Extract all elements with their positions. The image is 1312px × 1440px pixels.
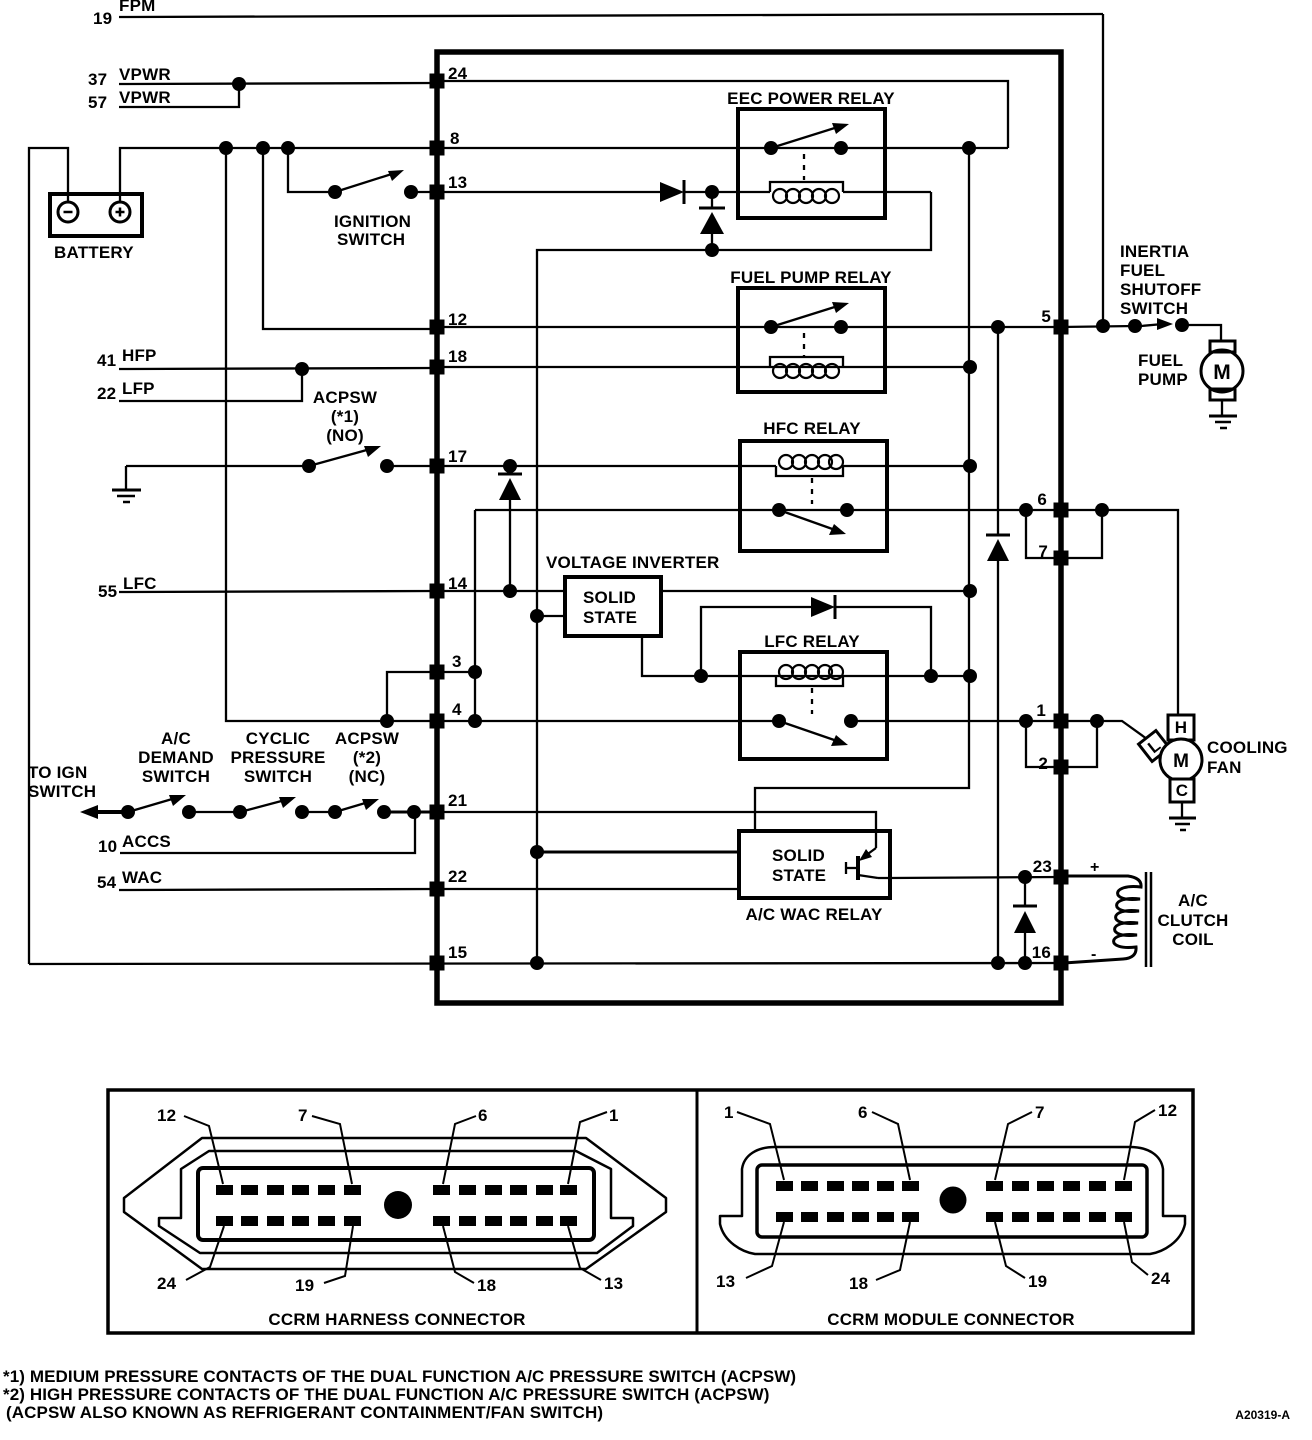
junction x998 pin 5 bbox=[991, 320, 1005, 334]
svg-text:1: 1 bbox=[724, 1103, 734, 1122]
CCRM harness connector pin frame bbox=[198, 1168, 594, 1240]
label LFC relay bbox=[764, 632, 860, 651]
svg-text:STATE: STATE bbox=[772, 866, 826, 885]
svg-text:HFP: HFP bbox=[122, 346, 157, 365]
CCRM module connector pins top row bbox=[776, 1181, 1132, 1222]
connector panel outer box bbox=[108, 1090, 1193, 1333]
cooling fan L terminal bbox=[1139, 731, 1170, 762]
CCRM module connector pin frame bbox=[757, 1165, 1147, 1237]
wire pin 6 outside bbox=[1061, 510, 1178, 715]
wire pin 14 line inside bbox=[437, 590, 970, 592]
node HFP pin 41 label bbox=[97, 346, 157, 370]
svg-text:CYCLIC: CYCLIC bbox=[246, 729, 310, 748]
svg-text:SOLID: SOLID bbox=[583, 588, 636, 607]
wire pin 21 line inside bbox=[437, 812, 876, 849]
relay FP contact left bbox=[764, 320, 778, 334]
relay LFC contact right bbox=[844, 714, 858, 728]
pin number labels left bbox=[448, 64, 468, 962]
CCRM harness connector key circle bbox=[384, 1191, 412, 1219]
relay HFC link dashed bbox=[811, 478, 813, 504]
wire transistor collector to pin 23 bbox=[878, 877, 1061, 878]
node ACCS pin 10 label bbox=[98, 832, 171, 856]
relay HFC coil bbox=[776, 466, 843, 476]
svg-text:16: 16 bbox=[1032, 943, 1051, 962]
CCRM harness connector pins top row bbox=[216, 1185, 577, 1226]
svg-text:A/C WAC RELAY: A/C WAC RELAY bbox=[745, 905, 883, 924]
wire 1-2 bracket outside bbox=[1068, 721, 1097, 767]
wire pin 12 to pin 5 line inside bbox=[437, 326, 1061, 328]
label A/C clutch coil bbox=[1157, 891, 1228, 949]
clutch coil core lines bbox=[1145, 872, 1148, 967]
junction battery rail C bbox=[281, 141, 295, 155]
motor cooling fan M2 bbox=[1160, 739, 1202, 781]
ground G1 left bbox=[125, 466, 127, 489]
junction LFC coil feed bbox=[694, 669, 708, 683]
relay HFC contact arm bbox=[779, 510, 838, 531]
diode CR1 on pin 13 line bbox=[660, 182, 684, 202]
svg-text:IGNITION: IGNITION bbox=[334, 212, 411, 231]
switch A/C demand contact right bbox=[182, 805, 196, 819]
svg-text:19: 19 bbox=[93, 9, 112, 28]
battery negative terminal bbox=[58, 202, 78, 222]
wire inverter bottom output bbox=[642, 636, 701, 676]
battery label bbox=[54, 243, 134, 262]
relay FP coil bbox=[770, 357, 843, 367]
diode CR3 vertical bbox=[509, 466, 511, 473]
svg-text:ACPSW: ACPSW bbox=[313, 388, 378, 407]
svg-text:(ACPSW ALSO KNOWN AS REFRIGERA: (ACPSW ALSO KNOWN AS REFRIGERANT CONTAIN… bbox=[6, 1403, 603, 1422]
junction EEC coil return node bbox=[705, 243, 719, 257]
svg-text:1: 1 bbox=[609, 1106, 619, 1125]
node FPM pin 19 label bbox=[93, 0, 155, 28]
switch inertia contact left bbox=[1128, 319, 1142, 333]
wire pin 4 to pin 1 line inside bbox=[437, 720, 779, 722]
svg-text:HFC RELAY: HFC RELAY bbox=[763, 419, 861, 438]
wire pin 13 line inside bbox=[437, 191, 660, 193]
wire pin 3 stub inside bbox=[437, 671, 475, 673]
svg-text:24: 24 bbox=[157, 1274, 177, 1293]
svg-text:+: + bbox=[1090, 859, 1100, 876]
switch ACPSW1 contact right bbox=[380, 459, 394, 473]
relay LFC coil bbox=[776, 676, 843, 686]
junction VPWR bbox=[232, 77, 246, 91]
switch ACPSW2 contact right bbox=[377, 805, 391, 819]
label HFC relay bbox=[763, 419, 861, 438]
label cyclic pressure switch bbox=[230, 729, 325, 786]
svg-text:13: 13 bbox=[604, 1274, 623, 1293]
ground G2 fuel pump bbox=[1221, 400, 1223, 415]
svg-text:FUEL: FUEL bbox=[1120, 261, 1165, 280]
switch ignition contact left bbox=[328, 185, 342, 199]
junction battery rail A bbox=[219, 141, 233, 155]
svg-text:VOLTAGE INVERTER: VOLTAGE INVERTER bbox=[546, 553, 720, 572]
junction LFC coil on power rail bbox=[963, 669, 977, 683]
junction inverter stub on x537 bbox=[530, 609, 544, 623]
svg-text:7: 7 bbox=[298, 1106, 308, 1125]
junction pin3 bracket on pin 4 line bbox=[380, 714, 394, 728]
svg-text:LFC RELAY: LFC RELAY bbox=[764, 632, 860, 651]
svg-text:BATTERY: BATTERY bbox=[54, 243, 134, 262]
svg-text:55: 55 bbox=[98, 582, 117, 601]
svg-text:*2) HIGH PRESSURE CONTACTS OF: *2) HIGH PRESSURE CONTACTS OF THE DUAL F… bbox=[3, 1385, 770, 1404]
junction x998 ground line bbox=[991, 956, 1005, 970]
wire 6-7 bracket outside bbox=[1068, 510, 1102, 558]
junction CR5 on ground line bbox=[1018, 956, 1032, 970]
wire LFC to pin 14 bbox=[119, 591, 434, 592]
label fuel pump bbox=[1138, 351, 1188, 389]
svg-text:FUEL: FUEL bbox=[1138, 351, 1183, 370]
svg-text:5: 5 bbox=[1041, 307, 1051, 326]
svg-text:8: 8 bbox=[450, 129, 460, 148]
switch A/C demand contact left bbox=[121, 805, 135, 819]
svg-text:19: 19 bbox=[295, 1276, 314, 1295]
relay HFC contact right bbox=[840, 503, 854, 517]
switch ignition arm bbox=[335, 172, 398, 192]
svg-text:SWITCH: SWITCH bbox=[1120, 299, 1188, 318]
svg-text:7: 7 bbox=[1035, 1103, 1045, 1122]
svg-text:21: 21 bbox=[448, 791, 467, 810]
solid state box voltage inverter U1 bbox=[565, 577, 661, 636]
wire ACPSW2 to pin 21 bbox=[384, 811, 434, 814]
switch inertia arm bbox=[1141, 324, 1163, 326]
wire VPWR to pin 24 bbox=[119, 83, 434, 84]
svg-text:WAC: WAC bbox=[122, 868, 162, 887]
label ACPSW NO switch bbox=[313, 388, 378, 445]
pin squares left edge bbox=[430, 74, 1069, 971]
svg-text:54: 54 bbox=[97, 873, 117, 892]
switch cyclic contact left bbox=[233, 805, 247, 819]
wire rail B down to pin 12 bbox=[263, 148, 434, 329]
relay LFC link dashed bbox=[811, 688, 813, 714]
ground G3 cooling fan bbox=[1181, 802, 1183, 817]
wire pin 15 to pin 16 ground line bbox=[29, 963, 1061, 964]
CCRM module outline bbox=[437, 52, 1061, 1003]
svg-text:COOLING: COOLING bbox=[1207, 738, 1288, 757]
svg-text:(*1): (*1) bbox=[331, 407, 359, 426]
harness connector leader lines bbox=[184, 1112, 607, 1283]
svg-text:CCRM MODULE CONNECTOR: CCRM MODULE CONNECTOR bbox=[827, 1310, 1075, 1329]
svg-text:PRESSURE: PRESSURE bbox=[230, 748, 325, 767]
label A/C demand switch bbox=[138, 729, 214, 786]
relay FP contact right bbox=[834, 320, 848, 334]
svg-text:C: C bbox=[1176, 781, 1188, 800]
svg-text:TO IGN: TO IGN bbox=[28, 763, 87, 782]
svg-text:41: 41 bbox=[97, 351, 116, 370]
module connector title bbox=[827, 1310, 1075, 1329]
svg-text:23: 23 bbox=[1033, 857, 1052, 876]
pin squares right edge bbox=[1054, 320, 1069, 335]
relay box fuel pump relay bbox=[738, 288, 885, 392]
junction pin 17 diode tap bbox=[503, 459, 517, 473]
svg-text:6: 6 bbox=[478, 1106, 488, 1125]
wire pin 8 line inside bbox=[437, 147, 1008, 149]
svg-text:A20319-A: A20319-A bbox=[1235, 1408, 1290, 1422]
cooling fan H terminal bbox=[1168, 715, 1194, 740]
svg-text:DEMAND: DEMAND bbox=[138, 748, 214, 767]
label voltage inverter bbox=[546, 553, 720, 572]
wire rail A down to pin 4 line bbox=[226, 148, 434, 721]
svg-text:17: 17 bbox=[448, 447, 467, 466]
svg-text:6: 6 bbox=[858, 1103, 868, 1122]
svg-text:LFP: LFP bbox=[122, 379, 155, 398]
battery B1 bbox=[50, 194, 142, 236]
diode CR6 on x998 bbox=[986, 534, 1010, 537]
wire HFC contact line to pin 6 bbox=[475, 509, 1061, 511]
junction FPM tap bbox=[1096, 319, 1110, 333]
CCRM module connector pins bottom row bbox=[776, 1212, 793, 1222]
battery positive terminal bbox=[110, 202, 130, 222]
relay LFC contact arm bbox=[779, 721, 840, 742]
junction 1-2 bracket bbox=[1019, 714, 1033, 728]
switch ACPSW1 arm bbox=[309, 448, 374, 466]
wire battery positive to pin 8 rail bbox=[120, 148, 434, 202]
relay FP contact arm bbox=[771, 305, 841, 327]
wire internal power rail x970 bbox=[755, 148, 969, 831]
svg-text:18: 18 bbox=[448, 347, 467, 366]
wire x475 branch rail bbox=[474, 510, 476, 721]
wire 1-2 bracket inside bbox=[1026, 721, 1061, 767]
svg-text:22: 22 bbox=[448, 867, 467, 886]
wire cyclic to ACPSW2 bbox=[302, 811, 335, 813]
svg-text:12: 12 bbox=[1158, 1101, 1177, 1120]
wire TO IGN arrow feed bbox=[90, 810, 128, 814]
svg-text:A/C: A/C bbox=[1178, 891, 1208, 910]
wire FPM drop to inertia junction bbox=[1102, 14, 1104, 327]
node WAC pin 54 label bbox=[97, 868, 162, 892]
label inertia fuel shutoff switch bbox=[1120, 242, 1201, 318]
relay HFC contact left bbox=[772, 503, 786, 517]
svg-text:-: - bbox=[1091, 946, 1097, 963]
svg-text:22: 22 bbox=[97, 384, 116, 403]
svg-text:A/C: A/C bbox=[161, 729, 191, 748]
junction pin 6 outside bracket bbox=[1095, 503, 1109, 517]
junction pin 14 diode bottom bbox=[503, 584, 517, 598]
CCRM harness connector inner shell bbox=[159, 1151, 633, 1253]
node LFC pin 55 label bbox=[98, 574, 157, 601]
svg-text:12: 12 bbox=[157, 1106, 176, 1125]
svg-text:(NC): (NC) bbox=[349, 767, 386, 786]
svg-text:CCRM HARNESS CONNECTOR: CCRM HARNESS CONNECTOR bbox=[268, 1310, 525, 1329]
junction x537 on ground line bbox=[530, 956, 544, 970]
wire FPM net top rail bbox=[119, 14, 1103, 17]
junction pin 1 outside bracket bbox=[1090, 714, 1104, 728]
svg-text:10: 10 bbox=[98, 837, 117, 856]
svg-text:FPM: FPM bbox=[119, 0, 155, 15]
wire rail C down to ignition switch bbox=[288, 148, 335, 192]
node VPWR pin 37 label bbox=[88, 65, 171, 89]
svg-text:FUEL PUMP RELAY: FUEL PUMP RELAY bbox=[730, 268, 892, 287]
relay EEC contact left bbox=[764, 141, 778, 155]
label ignition switch bbox=[334, 212, 411, 249]
CCRM harness connector outer shell bbox=[124, 1138, 666, 1269]
junction pin 13 diode node bbox=[705, 185, 719, 199]
switch cyclic contact right bbox=[295, 805, 309, 819]
wire HFP to pin 18 bbox=[119, 368, 434, 369]
relay EEC contact arm bbox=[771, 126, 841, 148]
svg-text:EEC POWER RELAY: EEC POWER RELAY bbox=[727, 89, 895, 108]
diode CR2 clamp vertical bbox=[711, 192, 713, 207]
label EEC power relay bbox=[727, 89, 895, 108]
junction CR4 return bbox=[924, 669, 938, 683]
svg-text:7: 7 bbox=[1038, 542, 1048, 561]
svg-text:2: 2 bbox=[1038, 754, 1048, 773]
junction battery rail B bbox=[256, 141, 270, 155]
junction x475 pin 3 bbox=[468, 665, 482, 679]
svg-text:PUMP: PUMP bbox=[1138, 370, 1188, 389]
wire ground to ACPSW1 bbox=[126, 465, 309, 467]
wire 57 VPWR riser bbox=[119, 84, 239, 107]
label fuel pump relay bbox=[730, 268, 892, 287]
svg-text:13: 13 bbox=[448, 173, 467, 192]
svg-text:SWITCH: SWITCH bbox=[337, 230, 405, 249]
wire WAC to pin 22 bbox=[119, 889, 434, 890]
footnote 1 bbox=[3, 1367, 1290, 1422]
svg-text:ACCS: ACCS bbox=[122, 832, 171, 851]
svg-text:12: 12 bbox=[448, 310, 467, 329]
wire pin 18 line inside bbox=[437, 366, 970, 368]
svg-text:VPWR: VPWR bbox=[119, 65, 171, 84]
svg-text:57: 57 bbox=[88, 93, 107, 112]
relay FP link dashed bbox=[803, 333, 805, 357]
relay box LFC relay bbox=[740, 652, 887, 759]
svg-text:M: M bbox=[1173, 751, 1189, 772]
wire pin 22 line inside bbox=[437, 888, 739, 890]
relay EEC link dashed bbox=[803, 154, 805, 180]
label A/C WAC relay bbox=[745, 905, 883, 924]
label minus bbox=[1091, 946, 1097, 963]
junction pin 23 diode tap bbox=[1018, 870, 1032, 884]
svg-text:M: M bbox=[1213, 361, 1231, 384]
wire inertia to fuel pump bbox=[1182, 325, 1221, 341]
wire pin 24 line inside bbox=[437, 81, 1008, 148]
module connector leader lines bbox=[737, 1110, 1155, 1280]
junction x537 WAC stub bbox=[530, 845, 544, 859]
CCRM module connector key circle bbox=[940, 1187, 967, 1214]
junction ACCS tap bbox=[407, 805, 421, 819]
relay box HFC relay bbox=[740, 441, 887, 551]
transistor Q1 bbox=[875, 831, 877, 848]
inductor A/C clutch coil L1 bbox=[1064, 876, 1141, 963]
wire pin 1 outside bbox=[1061, 721, 1147, 739]
switch A/C demand arm bbox=[128, 797, 179, 812]
svg-text:24: 24 bbox=[448, 64, 468, 83]
junction FP coil right on power rail bbox=[963, 360, 977, 374]
wire ACPSW1 to pin 17 bbox=[387, 465, 434, 467]
svg-text:SWITCH: SWITCH bbox=[244, 767, 312, 786]
CCRM module connector shell bbox=[720, 1147, 1185, 1254]
wire battery negative to left rail bbox=[29, 148, 68, 964]
switch ACPSW1 contact left bbox=[302, 459, 316, 473]
wire HFC coil right to power rail bbox=[843, 465, 970, 467]
label ACPSW NC switch bbox=[335, 729, 400, 786]
svg-text:6: 6 bbox=[1037, 490, 1047, 509]
svg-text:ACPSW: ACPSW bbox=[335, 729, 400, 748]
junction pin 8 rail bbox=[962, 141, 976, 155]
relay box EEC power relay bbox=[738, 109, 885, 218]
svg-text:CLUTCH: CLUTCH bbox=[1157, 911, 1228, 930]
svg-text:SWITCH: SWITCH bbox=[142, 767, 210, 786]
wire LFP riser bbox=[119, 369, 302, 401]
wire EEC coil return rail bbox=[537, 192, 931, 963]
CCRM harness connector pins bottom row bbox=[216, 1216, 233, 1226]
node LFP pin 22 label bbox=[97, 379, 155, 403]
wire ignition to pin 13 bbox=[411, 191, 434, 193]
svg-text:37: 37 bbox=[88, 70, 107, 89]
svg-text:STATE: STATE bbox=[583, 608, 637, 627]
svg-text:15: 15 bbox=[448, 943, 467, 962]
motor fuel pump M1 bbox=[1210, 341, 1235, 352]
wire inverter lower input stub bbox=[537, 615, 565, 617]
junction inverter out on power rail bbox=[963, 584, 977, 598]
junction 6-7 bracket bbox=[1019, 503, 1033, 517]
svg-text:SWITCH: SWITCH bbox=[28, 782, 96, 801]
svg-text:SOLID: SOLID bbox=[772, 846, 825, 865]
switch ACPSW2 contact left bbox=[328, 805, 342, 819]
svg-text:(NO): (NO) bbox=[326, 426, 364, 445]
svg-text:H: H bbox=[1175, 718, 1187, 737]
wire pin 17 line inside bbox=[437, 465, 776, 467]
svg-text:13: 13 bbox=[716, 1272, 735, 1291]
wire x998 rail from pin 5 bbox=[997, 327, 999, 534]
wire EEC coil to return bbox=[843, 191, 931, 193]
relay EEC coil bbox=[770, 182, 843, 192]
solid state box A/C WAC relay U2 bbox=[739, 831, 890, 898]
wire LFC coil line bbox=[701, 675, 970, 677]
switch inertia contact right bbox=[1175, 318, 1189, 332]
wire pin 3 outside bracket bbox=[387, 672, 434, 721]
wire 6-7 bracket inside bbox=[1026, 510, 1061, 558]
relay LFC contact left bbox=[772, 714, 786, 728]
connector panel divider bbox=[696, 1090, 699, 1333]
label plus bbox=[1090, 859, 1100, 876]
switch cyclic arm bbox=[240, 799, 289, 812]
junction HFC coil on power rail bbox=[963, 459, 977, 473]
wire ACCS riser bbox=[120, 812, 415, 853]
svg-text:18: 18 bbox=[477, 1276, 496, 1295]
svg-text:18: 18 bbox=[849, 1274, 868, 1293]
harness connector pin labels bbox=[157, 1106, 623, 1295]
wire demand to cyclic bbox=[189, 811, 240, 813]
node VPWR pin 57 label bbox=[88, 88, 171, 112]
svg-text:INERTIA: INERTIA bbox=[1120, 242, 1189, 261]
svg-text:*1) MEDIUM PRESSURE CONTACTS O: *1) MEDIUM PRESSURE CONTACTS OF THE DUAL… bbox=[3, 1367, 796, 1386]
svg-text:4: 4 bbox=[452, 700, 462, 719]
svg-text:19: 19 bbox=[1028, 1272, 1047, 1291]
switch ACPSW2 arm bbox=[335, 801, 372, 812]
wire x537 stub to WAC box bbox=[537, 851, 739, 854]
svg-text:SHUTOFF: SHUTOFF bbox=[1120, 280, 1201, 299]
pin number labels right bbox=[1032, 307, 1052, 962]
cooling fan C terminal bbox=[1170, 779, 1194, 802]
svg-text:(*2): (*2) bbox=[353, 748, 381, 767]
label cooling fan bbox=[1207, 738, 1288, 777]
svg-text:COIL: COIL bbox=[1172, 930, 1213, 949]
diode CR5 clutch clamp bbox=[1024, 877, 1026, 905]
junction HFP LFP bbox=[295, 362, 309, 376]
svg-text:1: 1 bbox=[1036, 701, 1046, 720]
svg-text:VPWR: VPWR bbox=[119, 88, 171, 107]
wire pin 5 outside to inertia switch bbox=[1061, 326, 1135, 327]
module connector pin labels bbox=[716, 1101, 1177, 1293]
svg-text:24: 24 bbox=[1151, 1269, 1171, 1288]
harness connector title bbox=[268, 1310, 525, 1329]
label TO IGN SWITCH bbox=[28, 763, 96, 801]
svg-text:LFC: LFC bbox=[123, 574, 157, 593]
diode CR4 bypass loop bbox=[701, 607, 811, 676]
relay EEC contact right bbox=[834, 141, 848, 155]
switch ignition contact right bbox=[404, 185, 418, 199]
svg-text:FAN: FAN bbox=[1207, 758, 1242, 777]
